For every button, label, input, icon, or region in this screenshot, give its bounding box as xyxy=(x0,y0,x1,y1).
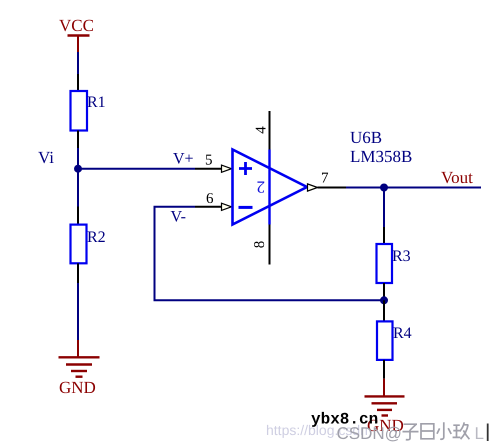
resistor R1 xyxy=(71,91,106,131)
yue xyxy=(421,424,434,439)
pin 4 (power) xyxy=(254,111,270,150)
svg-text:R4: R4 xyxy=(393,325,412,342)
pin 8 (power) xyxy=(252,225,269,265)
wire R3 to node xyxy=(383,283,385,300)
svg-text:U6B: U6B xyxy=(350,128,382,147)
wire VCC to R1 xyxy=(77,52,79,91)
watermark cursor bar xyxy=(487,424,489,442)
svg-text:VCC: VCC xyxy=(59,16,94,35)
ground GND right xyxy=(365,396,405,435)
resistor R3 xyxy=(377,244,411,283)
svg-text:2: 2 xyxy=(257,177,266,196)
wire pin7 to Vout xyxy=(346,187,481,189)
svg-text:R3: R3 xyxy=(392,248,411,265)
op-amp U6B xyxy=(233,128,413,225)
svg-text:L: L xyxy=(475,424,484,443)
zi xyxy=(403,424,419,440)
svg-text:V+: V+ xyxy=(173,151,194,168)
wire R4 to GND xyxy=(383,360,385,397)
pin 6 xyxy=(195,191,232,210)
svg-text:GND: GND xyxy=(59,378,96,397)
node R3/R4 junction xyxy=(380,296,388,304)
wire R2 to GND xyxy=(77,263,79,357)
svg-text:R1: R1 xyxy=(87,94,106,111)
minus mark xyxy=(239,206,253,209)
resistor R2 xyxy=(71,225,106,264)
power VCC xyxy=(59,16,94,52)
wire output to R3 xyxy=(383,188,385,245)
svg-text:6: 6 xyxy=(206,191,214,207)
wire node to R4 xyxy=(383,300,385,321)
svg-text:8: 8 xyxy=(252,241,268,249)
svg-text:5: 5 xyxy=(205,153,213,169)
svg-text:R2: R2 xyxy=(87,229,106,246)
pin 5 xyxy=(195,153,232,173)
svg-text:LM358B: LM358B xyxy=(350,147,412,166)
svg-text:Vi: Vi xyxy=(38,148,54,167)
resistor R4 xyxy=(377,321,412,360)
pin 7 (output) xyxy=(308,171,347,192)
wire Vi to pin 5 xyxy=(78,168,195,170)
wire Vi to R2 xyxy=(77,169,79,225)
wire feedback xyxy=(155,207,385,300)
xiao xyxy=(437,422,451,439)
jiu xyxy=(453,422,470,439)
svg-text:4: 4 xyxy=(254,126,270,134)
wire R1 to node Vi xyxy=(77,131,79,169)
node output junction xyxy=(380,184,388,192)
watermark CJK glyphs xyxy=(403,422,470,440)
svg-text:CSDN@: CSDN@ xyxy=(337,424,402,443)
ground GND left xyxy=(59,357,100,397)
node Vi xyxy=(38,148,82,173)
plus mark xyxy=(239,162,252,175)
svg-text:Vout: Vout xyxy=(441,168,473,187)
svg-text:7: 7 xyxy=(321,171,329,187)
svg-text:V-: V- xyxy=(171,209,186,226)
power rail through op-amp xyxy=(268,150,270,225)
